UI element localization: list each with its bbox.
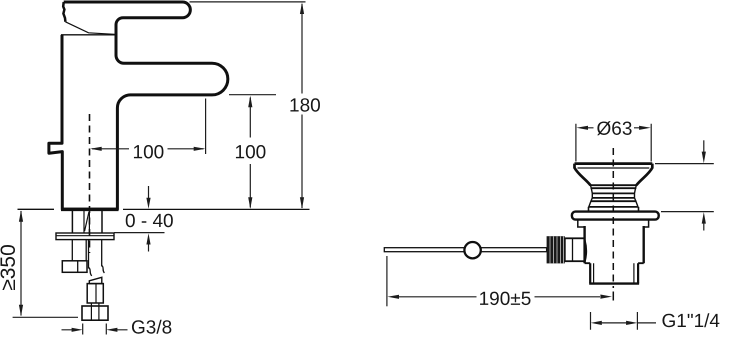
lever left jagged edge <box>63 2 65 22</box>
arrowheads, right figure <box>387 126 706 325</box>
G3/8 ticks <box>83 324 107 335</box>
supply hose below washer <box>89 240 102 269</box>
deck surface left segment <box>18 208 55 210</box>
deck surface right segment <box>123 208 310 210</box>
body bottom thick base line <box>61 208 119 212</box>
G1 1/4 dim line <box>602 322 657 324</box>
bottom tube <box>590 263 638 283</box>
0-40 upper arrow tail <box>148 186 150 203</box>
svg-text:≥350: ≥350 <box>0 244 20 291</box>
G3/8 right-pointing arrow <box>72 328 83 332</box>
100h left arrow <box>90 147 102 151</box>
texts, left figure <box>0 96 321 337</box>
drain body <box>585 226 644 263</box>
100v down arrow <box>248 197 252 209</box>
dashed centerline of faucet <box>89 114 91 253</box>
svg-text:0 - 40: 0 - 40 <box>125 211 174 232</box>
190 dim line <box>398 296 600 298</box>
180 dimension line <box>301 4 303 208</box>
diagonal under lever <box>65 22 114 35</box>
trumpet right flare <box>636 164 652 186</box>
G3/8 dimension lines <box>62 329 128 331</box>
pull rod <box>384 248 546 252</box>
190 right arrow <box>600 295 612 299</box>
connector neck <box>91 303 99 306</box>
hose end ferrule <box>89 277 102 283</box>
G1 right arrow <box>626 321 637 325</box>
vdim up arrow <box>702 212 706 224</box>
extension line top (180) <box>190 1 306 3</box>
flange plate <box>572 212 659 220</box>
0-40 lower arrow tail <box>148 240 150 252</box>
arrowheads, left figure <box>19 2 304 332</box>
rim extension line <box>655 163 714 165</box>
svg-text:100: 100 <box>132 142 164 163</box>
plate extension line <box>661 211 714 213</box>
>=350 dimension line <box>20 211 22 316</box>
drain dashed centerline <box>90 0 614 288</box>
rod nut <box>62 261 87 273</box>
G3/8 nut <box>82 306 108 320</box>
G1 left arrow <box>591 321 602 325</box>
180 up arrow <box>300 2 304 14</box>
diameter 63 arrow tails <box>587 127 640 129</box>
ridge side profiles <box>589 185 638 207</box>
svg-text:180: 180 <box>289 96 321 117</box>
svg-text:100: 100 <box>234 142 266 163</box>
180 down arrow <box>300 197 304 209</box>
svg-text:Ø63: Ø63 <box>596 119 632 140</box>
diameter 63 ticks <box>576 124 651 162</box>
100v up arrow <box>248 96 252 108</box>
G1 1/4 ticks <box>591 312 638 330</box>
rod ball joint <box>464 242 480 258</box>
threaded rod below washer <box>72 240 86 261</box>
right vertical dim upper segment <box>703 140 705 152</box>
trumpet left flare <box>575 164 591 186</box>
0-40 washer extension line <box>114 232 165 234</box>
gasket steps <box>578 220 649 227</box>
190 tick <box>386 256 388 306</box>
0-40 down arrow <box>146 198 150 209</box>
>=350 bottom extension line <box>13 316 78 318</box>
190 left arrow <box>387 295 399 299</box>
body top thin line <box>61 34 116 36</box>
body bottom shoulders <box>585 262 644 264</box>
svg-text:G3/8: G3/8 <box>131 318 172 337</box>
0-40 up arrow <box>146 233 150 244</box>
hose inside shank <box>84 211 89 233</box>
hose connector block <box>87 284 103 303</box>
right vertical dim lower segment <box>703 223 705 231</box>
svg-text:190±5: 190±5 <box>479 289 532 310</box>
faucet main outline <box>49 2 228 209</box>
mounting washer <box>56 233 114 240</box>
port-body intersection arc <box>585 240 587 262</box>
ridge lines <box>588 185 638 207</box>
texts, right figure <box>479 119 721 332</box>
d63 left arrow <box>576 126 588 130</box>
extension line from spout bottom (100 vert) <box>229 94 276 96</box>
d63 right arrow <box>639 126 651 130</box>
trumpet rim top <box>575 162 653 165</box>
vdim down arrow <box>702 152 706 164</box>
knurled clamp nut <box>547 236 565 263</box>
collar sides <box>589 207 639 212</box>
hose wiggle <box>89 266 105 276</box>
extension line for 100 horizontal <box>205 99 207 155</box>
100 vertical dimension line <box>249 98 251 208</box>
100h right arrow <box>194 147 206 151</box>
G3/8 left-pointing arrow <box>106 328 117 332</box>
>=350 down arrow <box>19 305 23 317</box>
shank sides under deck <box>72 211 102 233</box>
>=350 up arrow <box>19 210 23 222</box>
side port block <box>565 238 585 261</box>
100 horizontal dimension line <box>92 148 204 150</box>
svg-text:G1"1/4: G1"1/4 <box>661 311 720 332</box>
